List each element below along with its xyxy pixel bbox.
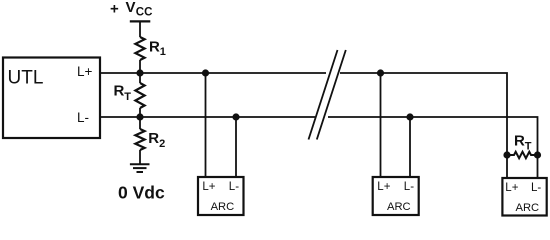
svg-text:V: V xyxy=(126,0,136,16)
junction node: L- / RT / R2 xyxy=(136,113,143,120)
svg-text:L+: L+ xyxy=(202,181,215,193)
svg-text:L-: L- xyxy=(531,182,541,194)
svg-text:L+: L+ xyxy=(377,181,390,193)
resistor R2 xyxy=(135,129,144,150)
junction node: RT right-left xyxy=(503,151,510,158)
svg-text:UTL: UTL xyxy=(8,68,44,89)
resistor R1 xyxy=(135,37,144,60)
svg-text:L-: L- xyxy=(404,181,414,193)
svg-text:L+: L+ xyxy=(77,64,93,79)
wire: VCC bar to R1 xyxy=(139,22,141,37)
wire: ARC1 L+ drop xyxy=(205,73,207,177)
wire: R1 to L+ node xyxy=(139,60,141,73)
wire: L+ node to RT xyxy=(139,73,141,83)
ARC2 box xyxy=(373,177,419,215)
svg-text:ARC: ARC xyxy=(387,201,411,213)
junction node: ARC1 L+ tap xyxy=(202,69,209,76)
junction node: L+ / R1 / RT xyxy=(136,69,143,76)
wire: ARC1 L- drop xyxy=(235,117,237,177)
break mark slash 2 xyxy=(317,50,346,140)
resistor RT (far-end terminator, horizontal) xyxy=(507,152,538,158)
+VCC supply terminal bar xyxy=(130,20,151,22)
ARC3 box xyxy=(502,178,546,216)
svg-text:+: + xyxy=(110,1,119,18)
svg-text:0 Vdc: 0 Vdc xyxy=(118,183,165,203)
svg-text:1: 1 xyxy=(160,46,166,58)
svg-text:L-: L- xyxy=(229,181,239,193)
wire: L+ bus left segment xyxy=(100,72,326,74)
svg-text:L-: L- xyxy=(77,110,89,125)
svg-text:R: R xyxy=(114,83,125,100)
junction node: ARC1 L- tap xyxy=(232,113,239,120)
wire: ARC2 L- drop xyxy=(409,117,411,177)
UTL box U1 xyxy=(3,58,100,139)
svg-text:T: T xyxy=(124,91,131,103)
junction node: RT right-right xyxy=(534,151,541,158)
wire: L- bus right segment with corner down to RT xyxy=(328,117,538,178)
junction node: ARC2 L+ tap xyxy=(377,69,384,76)
wire: L- node to R2 xyxy=(139,117,141,129)
svg-text:L+: L+ xyxy=(505,182,518,194)
resistor RT (source terminator) xyxy=(135,83,144,108)
svg-text:2: 2 xyxy=(159,138,165,150)
junction node: ARC2 L- tap xyxy=(406,113,413,120)
ARC1 box xyxy=(198,177,244,215)
wire: R2 to ground xyxy=(139,150,141,164)
svg-text:ARC: ARC xyxy=(211,201,235,213)
svg-text:T: T xyxy=(525,140,532,152)
svg-text:ARC: ARC xyxy=(516,202,540,214)
wire: L+ bus right segment with corner down to RT xyxy=(340,73,507,178)
svg-text:R: R xyxy=(514,132,525,149)
ground symbol xyxy=(130,164,150,172)
wire: ARC2 L+ drop xyxy=(380,73,382,177)
wire: L- bus left segment xyxy=(100,116,315,118)
svg-text:R: R xyxy=(148,130,159,147)
wire: RT to L- node xyxy=(139,108,141,117)
svg-text:CC: CC xyxy=(136,7,153,19)
svg-text:R: R xyxy=(149,38,160,55)
break mark slash 1 xyxy=(309,50,338,140)
